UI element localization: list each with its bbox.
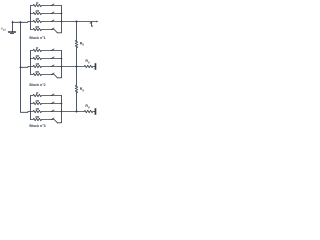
main output bus [76, 22, 78, 41]
junction right bus row 2 [61, 58, 63, 60]
svg-text:Rg: Rg [80, 41, 85, 46]
svg-text:Block n°2: Block n°2 [29, 83, 45, 87]
resistor Rg2 (vertical) [75, 85, 77, 92]
svg-text:R: R [36, 46, 39, 50]
wire: block3 tap [62, 111, 77, 113]
resistor Re2 (to electrode) [77, 110, 95, 112]
switch S4 block 3 [51, 118, 54, 120]
block 3 left bus [30, 96, 32, 120]
svg-text:Rg: Rg [80, 87, 85, 92]
switch S3 block 1 [51, 20, 54, 22]
resistor 8R block 3 [31, 118, 58, 123]
junction right bus row 2 [61, 13, 63, 15]
switch S2 block 2 [51, 57, 54, 59]
switch S3 block 2 [51, 65, 54, 67]
resistor 2R block 1 [31, 12, 62, 14]
switch S2 block 3 [51, 102, 54, 104]
wire: source rail to block 1 [13, 21, 31, 24]
wire: feed to block 2 [21, 66, 31, 69]
junction right bus row 2 [61, 103, 63, 105]
resistor Rg1 (vertical) [75, 40, 77, 47]
svg-text:R: R [36, 91, 39, 95]
node: main bus top [76, 21, 78, 23]
switch S1 block 1 [51, 4, 54, 6]
block 1 right bus [57, 6, 61, 33]
resistor R block 2 [31, 49, 62, 51]
switch S4 block 2 [51, 73, 54, 75]
electrode terminal 2 [95, 108, 97, 115]
resistor 4R block 3 [31, 110, 62, 112]
block 2 left bus [30, 51, 32, 75]
resistor 8R block 2 [31, 73, 58, 78]
resistor 2R block 2 [31, 57, 62, 59]
switch S1 block 3 [51, 94, 54, 96]
svg-text:Block n°1: Block n°1 [29, 36, 45, 40]
block 1 left bus [30, 6, 32, 30]
resistor 8R block 1 [31, 28, 58, 33]
svg-text:Rg: Rg [85, 59, 90, 64]
resistor 4R block 1 [31, 20, 62, 22]
wire: block1 tap to output, current arrow i [62, 21, 97, 23]
switch S2 block 1 [51, 12, 54, 14]
node: rail-bus junction [20, 21, 22, 23]
svg-text:vad: vad [1, 26, 6, 32]
voltage source v_ad arrow [12, 20, 14, 32]
svg-text:Rg: Rg [85, 104, 90, 109]
junction right bus row 3 [61, 66, 63, 68]
switch S1 block 2 [51, 49, 54, 51]
junction right bus row 3 [61, 111, 63, 113]
resistor R block 3 [31, 94, 62, 96]
block 2 right bus [57, 51, 61, 78]
block 3 right bus [57, 96, 61, 123]
wire: block2 tap [62, 66, 77, 68]
electrode terminal 1 [95, 63, 97, 70]
label i [90, 22, 93, 26]
svg-text:Block n°3: Block n°3 [29, 124, 45, 128]
resistor 4R block 2 [31, 65, 62, 67]
svg-text:R: R [36, 1, 39, 5]
resistor R block 1 [31, 4, 62, 6]
switch S3 block 3 [51, 110, 54, 112]
resistor 2R block 3 [31, 102, 62, 104]
junction right bus row 3 [61, 21, 63, 23]
switch S4 block 1 [51, 28, 54, 30]
ground [9, 32, 16, 34]
wire: left distribution bus [21, 22, 31, 112]
resistor Re1 (to electrode) [77, 65, 95, 67]
